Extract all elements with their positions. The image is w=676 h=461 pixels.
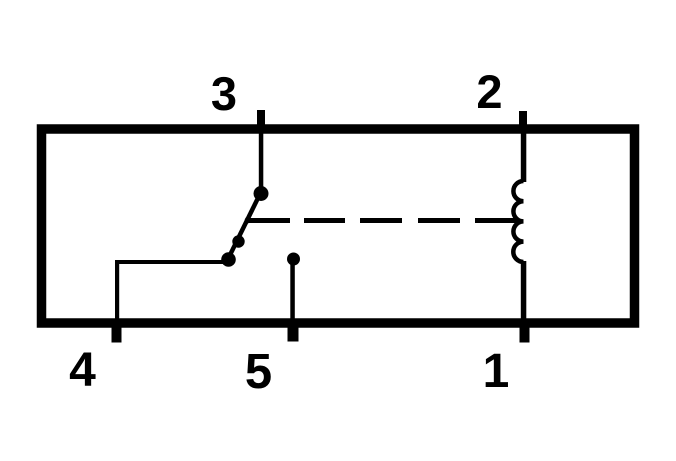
svg-text:5: 5: [245, 345, 272, 399]
wire pin3 to common contact: [259, 130, 264, 190]
svg-text:2: 2: [476, 65, 502, 118]
svg-text:1: 1: [483, 345, 510, 398]
pin 3 stub: [257, 110, 265, 132]
common contact node: [254, 186, 269, 201]
svg-text:3: 3: [211, 67, 237, 120]
NC contact node: [221, 252, 236, 267]
mechanical linkage dashed line: [249, 218, 519, 223]
pin 2 stub: [519, 111, 527, 132]
wire pin 2 to coil: [521, 130, 527, 182]
wire pin 5 (vertical): [290, 259, 295, 323]
pin 1 stub: [520, 326, 530, 343]
pin 5 stub: [288, 326, 299, 342]
NO contact node (pin 5): [287, 253, 300, 266]
wire to pin 4 (vertical): [115, 260, 119, 323]
coil L1: [513, 181, 523, 262]
pin 4 stub: [112, 326, 122, 343]
switch arm (movable contact): [230, 198, 259, 256]
wire NC contact to pin 4 (horizontal): [115, 260, 224, 264]
svg-text:4: 4: [69, 344, 96, 397]
blob on arm: [232, 235, 244, 247]
small blob on arm: [245, 217, 251, 223]
relay body outline K1: [42, 129, 635, 323]
wire coil to pin 1: [521, 261, 527, 323]
